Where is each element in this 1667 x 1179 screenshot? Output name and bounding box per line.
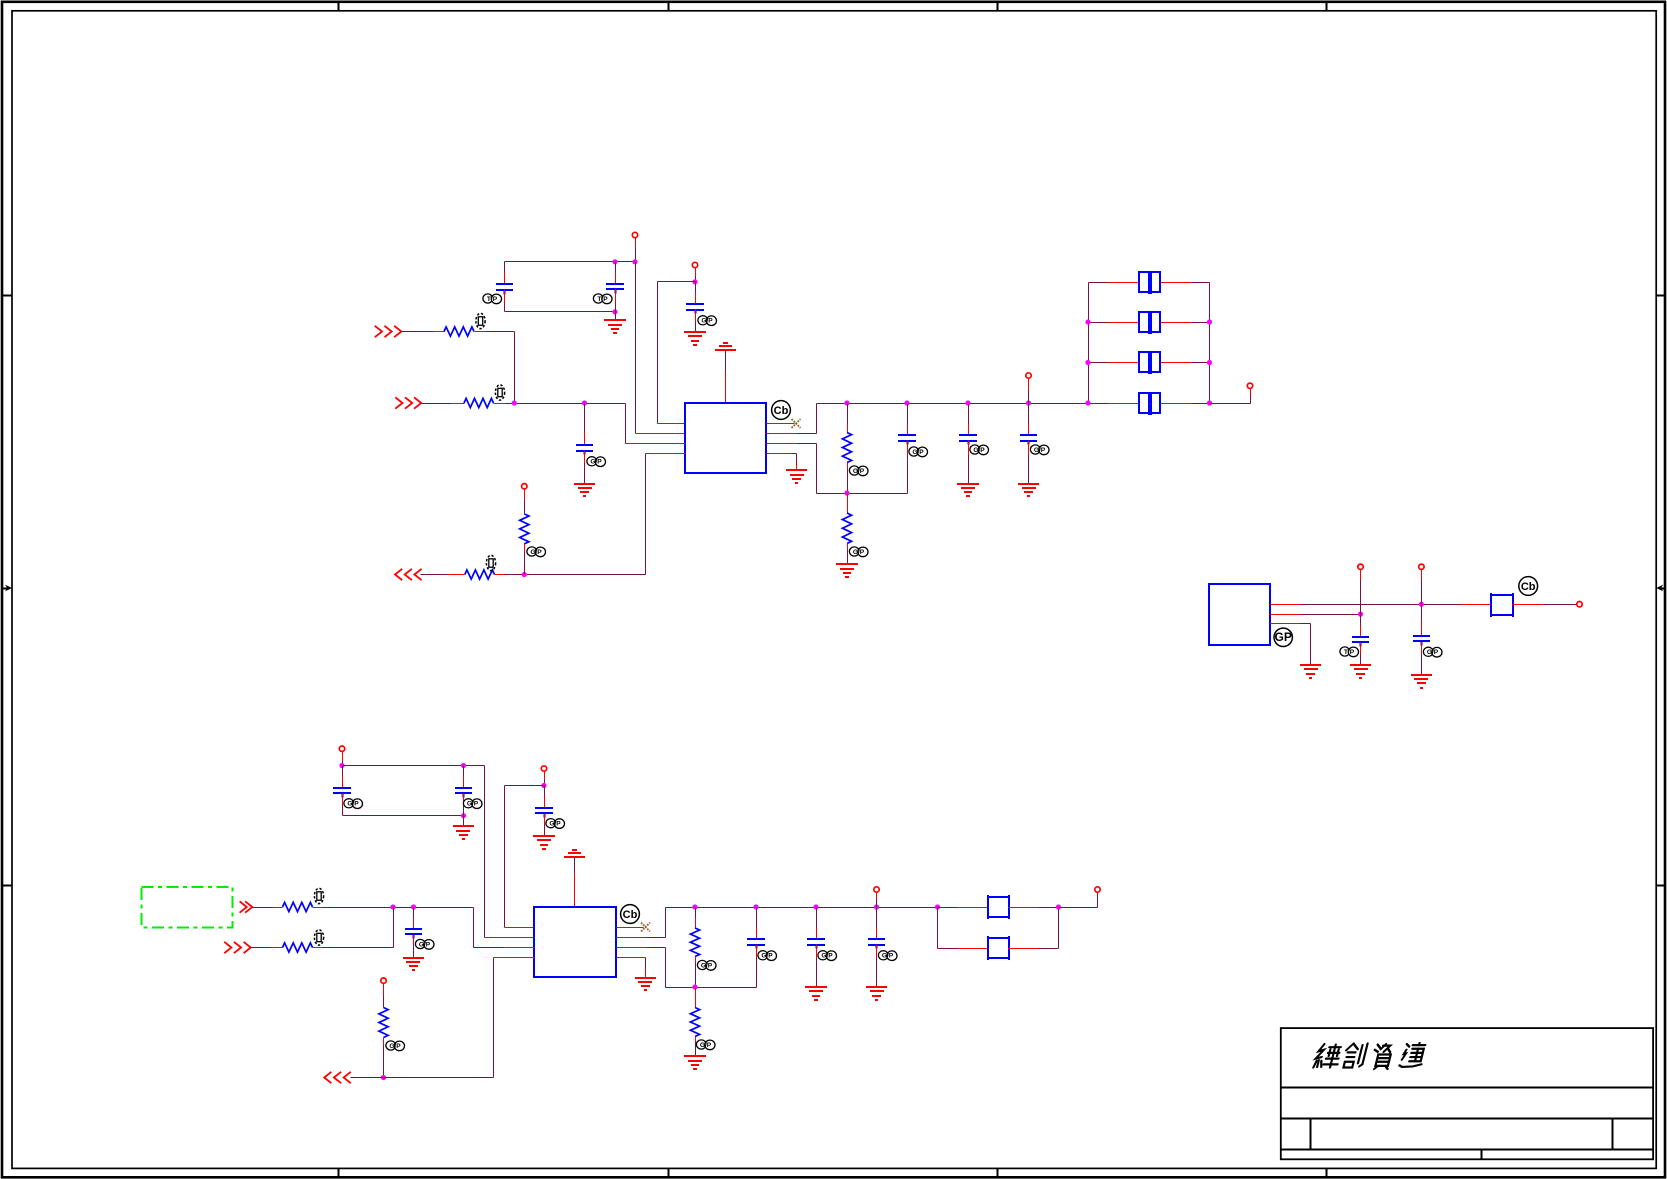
- capacitor C12: [333, 766, 351, 816]
- bank junction L: [1085, 360, 1090, 365]
- no-connect X on U1 pin: [767, 419, 801, 428]
- wire IN1: [402, 331, 445, 333]
- ground below C4: [574, 484, 595, 496]
- bank junction R: [1207, 319, 1212, 324]
- IC U3: [1209, 584, 1270, 645]
- resistor R2: [464, 398, 494, 407]
- wire rowA: [313, 908, 535, 948]
- wire U3 pin1 to FB3: [1271, 604, 1492, 606]
- bank junction R: [1207, 400, 1212, 405]
- output port arrow OUT2: [324, 1072, 351, 1083]
- ground below C15: [403, 958, 424, 970]
- label C13: [463, 799, 482, 809]
- power node P6: [339, 746, 344, 766]
- junction at C2 top: [612, 259, 617, 264]
- capacitor C5: [898, 404, 916, 494]
- label C15: [415, 939, 434, 949]
- junction rail at R5: [844, 400, 849, 405]
- svg-text:T/P: T/P: [597, 296, 608, 303]
- wire R3 to U1 pin4: [495, 454, 686, 575]
- ground below C18: [866, 987, 887, 1000]
- svg-text:G/P: G/P: [590, 459, 602, 466]
- svg-text:Cb: Cb: [774, 405, 789, 417]
- svg-text:GP: GP: [1275, 630, 1292, 644]
- bank capacitor C11 leads: [1089, 403, 1210, 405]
- capacitor C2: [606, 262, 624, 312]
- junction rail at C5: [904, 400, 909, 405]
- ground below C2: [604, 312, 626, 334]
- capacitor C3: [686, 282, 704, 332]
- wire to P10: [1059, 893, 1098, 908]
- svg-text:G/P: G/P: [853, 549, 865, 556]
- label C16: [758, 951, 777, 961]
- cap bank right rail: [1209, 283, 1211, 404]
- capacitor C18: [868, 908, 885, 988]
- svg-text:G/P: G/P: [1427, 649, 1439, 656]
- ground below C19: [1350, 665, 1371, 678]
- IC U1: [685, 403, 766, 473]
- input port arrow IN2: [395, 397, 421, 408]
- wire U3 pin2: [1271, 614, 1361, 616]
- label R10: [697, 960, 716, 970]
- svg-text:G/P: G/P: [467, 801, 479, 808]
- label R4: [527, 547, 546, 557]
- label Cb of U2: [621, 905, 640, 924]
- ferrite bead FB3: [1491, 593, 1513, 617]
- power node P3: [522, 484, 527, 514]
- svg-text:G/P: G/P: [912, 449, 924, 456]
- wire IN2: [422, 403, 465, 405]
- wire rowC to U2 pin4: [351, 958, 535, 1078]
- resistor R9: [379, 1008, 388, 1078]
- junction pin2 at C19: [1358, 612, 1363, 617]
- capacitor C17: [807, 908, 825, 988]
- input port arrow IN3: [240, 901, 253, 912]
- wire C1 bottom to C2 bottom: [505, 311, 616, 313]
- hier block outline: [142, 887, 233, 928]
- bank capacitor C11: [1139, 392, 1160, 415]
- ground below C14: [533, 836, 555, 849]
- svg-text:G/P: G/P: [700, 1042, 712, 1049]
- resistor R7: [283, 902, 313, 911]
- junction P7 drop: [541, 783, 546, 788]
- wire U2 pin to ground: [617, 958, 646, 978]
- wire P1 to pin2 of U1: [636, 262, 686, 434]
- label C12: [344, 799, 363, 809]
- power node P8: [381, 978, 386, 1008]
- junction at P2 drop: [692, 279, 697, 284]
- bank capacitor C9 leads: [1089, 322, 1210, 324]
- capacitor C7: [1020, 404, 1037, 484]
- svg-text:G/P: G/P: [701, 962, 713, 969]
- wire loop top: [343, 766, 535, 938]
- power ground flag above U2: [564, 850, 585, 908]
- bank capacitor C8: [1139, 271, 1160, 294]
- svg-text:Cb: Cb: [623, 909, 638, 921]
- capacitor C19: [1352, 615, 1369, 666]
- ground below C7: [1018, 484, 1039, 496]
- bank capacitor C10: [1139, 351, 1160, 374]
- svg-text:G/P: G/P: [1034, 447, 1046, 454]
- label C20: [1423, 647, 1442, 657]
- resistor R3: [465, 570, 495, 579]
- label C1: [483, 294, 502, 304]
- ground below C3: [684, 332, 706, 345]
- svg-text:G/P: G/P: [389, 1043, 401, 1050]
- input port arrow IN1: [375, 326, 402, 337]
- label R9: [386, 1041, 405, 1051]
- resistor R10: [690, 908, 699, 988]
- ground below U1 pin: [786, 470, 807, 483]
- junction row3 at R4: [522, 572, 527, 577]
- capacitor C15: [405, 908, 422, 958]
- label Cb of U1: [772, 401, 791, 420]
- wire bank to P5: [1210, 389, 1251, 404]
- capacitor C20: [1413, 605, 1430, 675]
- wire U1 pin to VOUT rail: [767, 404, 817, 434]
- power node P11: [1577, 602, 1582, 607]
- label C19: [1340, 647, 1359, 657]
- resistor R4 pull: [520, 514, 529, 575]
- wire U1 pin to lower rail: [767, 444, 908, 494]
- designator R8: [314, 930, 323, 945]
- bank capacitor C9: [1139, 311, 1160, 334]
- junction rail at C16: [753, 904, 758, 909]
- label C17: [818, 951, 837, 961]
- label C14: [546, 819, 565, 829]
- IC U2: [534, 907, 616, 977]
- wire IN3: [253, 907, 283, 909]
- svg-text:T/P: T/P: [1344, 649, 1355, 656]
- junction rail at C17: [813, 904, 818, 909]
- label Cb of FB3: [1519, 577, 1538, 596]
- wire R1 to row2: [475, 332, 515, 404]
- power node P4: [1026, 373, 1031, 404]
- wire P7 to U2 pin1: [505, 786, 545, 928]
- label C7: [1030, 445, 1049, 455]
- designator R7: [314, 888, 323, 903]
- wire U1 pin to ground: [767, 454, 797, 471]
- designator R2: [495, 385, 504, 400]
- capacitor C14: [535, 786, 553, 837]
- power node P13: [1419, 564, 1424, 604]
- label C4: [587, 457, 606, 467]
- VOUT rail: [817, 403, 1089, 405]
- power ground flag above U1: [715, 343, 736, 404]
- svg-text:G/P: G/P: [701, 318, 713, 325]
- svg-text:G/P: G/P: [882, 953, 894, 960]
- junction row2 at R1 drop: [512, 400, 517, 405]
- wire R8 to rowA: [313, 908, 394, 948]
- label R6: [849, 547, 868, 557]
- junction lower rail at R6: [844, 490, 849, 495]
- label C3: [698, 316, 717, 326]
- junction rail at beads: [935, 904, 940, 909]
- company name text: [1313, 1043, 1426, 1069]
- junction row2 at C4: [582, 400, 587, 405]
- ground below C6: [957, 484, 979, 496]
- input port arrow OUT1: [395, 569, 422, 580]
- bank capacitor C10 leads: [1089, 362, 1210, 364]
- junction rowA at rowB: [390, 904, 395, 909]
- capacitor C16: [747, 908, 765, 988]
- ferrite bead FB2: [938, 908, 1059, 961]
- junction loop bottom: [461, 813, 466, 818]
- junction rail after beads: [1056, 904, 1061, 909]
- ground below U3 pin3: [1300, 665, 1321, 678]
- ferrite bead FB1: [938, 895, 1059, 919]
- bottom rail: [666, 907, 938, 909]
- bank junction L: [1085, 400, 1090, 405]
- designator R3: [486, 555, 495, 570]
- ground below C20: [1411, 675, 1432, 688]
- junction rail at C6: [965, 400, 970, 405]
- no-connect X on U2 pin: [617, 923, 651, 932]
- label C5: [909, 447, 928, 457]
- power node P5: [1247, 383, 1252, 388]
- junction at P1 drop: [632, 259, 637, 264]
- resistor R5: [842, 404, 851, 494]
- bank junction L: [1085, 319, 1090, 324]
- ground below C17: [805, 987, 827, 1000]
- svg-text:G/P: G/P: [821, 953, 833, 960]
- svg-text:Cb: Cb: [1521, 581, 1536, 593]
- junction loop top at C13: [461, 763, 466, 768]
- power node P2: [692, 262, 697, 281]
- svg-text:G/P: G/P: [973, 447, 985, 454]
- wire VCC rail top: [505, 261, 636, 263]
- junction lower rail2 at R11: [692, 984, 697, 989]
- junction rail at R10: [692, 904, 697, 909]
- title block: [1281, 1028, 1654, 1159]
- junction at C2 bottom: [612, 309, 617, 314]
- wire U2 pin to rail2: [617, 908, 666, 938]
- resistor R11: [690, 988, 699, 1057]
- wire U2 pin to lower rail2: [617, 948, 757, 988]
- capacitor C1: [496, 262, 513, 312]
- wire P2 to pin1 of U1: [658, 282, 696, 424]
- ground below R11: [684, 1056, 706, 1069]
- svg-text:G/P: G/P: [347, 801, 359, 808]
- svg-text:G/P: G/P: [530, 549, 542, 556]
- label R11: [696, 1040, 715, 1050]
- label C2: [593, 294, 612, 304]
- junction rowC: [381, 1075, 386, 1080]
- power node P9: [874, 887, 879, 908]
- wire R2 to U1 pin3: [494, 404, 686, 444]
- power node P12: [1358, 564, 1363, 614]
- label C18: [878, 951, 897, 961]
- svg-text:G/P: G/P: [549, 821, 561, 828]
- wire IN4: [251, 947, 283, 949]
- designator R1: [476, 313, 485, 328]
- ground below U2 pin: [635, 978, 656, 990]
- cap bank left rail: [1088, 283, 1090, 404]
- wire OUT1: [421, 574, 465, 576]
- wire U3 pin3 to ground: [1271, 624, 1311, 666]
- bank junction R: [1207, 360, 1212, 365]
- ground below C13: [453, 816, 474, 840]
- svg-text:T/P: T/P: [487, 296, 498, 303]
- resistor R6: [842, 494, 851, 565]
- junction rail at C7: [1026, 400, 1031, 405]
- resistor R8: [283, 943, 313, 952]
- capacitor C4: [576, 404, 593, 484]
- svg-text:G/P: G/P: [419, 941, 431, 948]
- wire loop bottom: [343, 815, 464, 817]
- power node P10: [1095, 887, 1100, 892]
- power node P7: [541, 766, 546, 786]
- label GP of U3: [1274, 628, 1292, 646]
- input port arrow IN4: [224, 942, 251, 953]
- junction rowA at C15: [411, 904, 416, 909]
- junction pin1 at C20: [1419, 602, 1424, 607]
- svg-text:G/P: G/P: [761, 953, 773, 960]
- ground below R6: [836, 564, 858, 577]
- wire FB3 to P11: [1513, 604, 1578, 606]
- label C6: [970, 445, 989, 455]
- junction rail at C18: [874, 904, 879, 909]
- bank capacitor C8 leads: [1089, 282, 1210, 284]
- power node P1: [632, 232, 637, 261]
- resistor R1: [444, 327, 474, 336]
- capacitor C6: [959, 404, 977, 484]
- capacitor C13: [455, 766, 472, 816]
- svg-text:G/P: G/P: [853, 468, 865, 475]
- label R5: [849, 466, 868, 476]
- junction P6 drop: [339, 763, 344, 768]
